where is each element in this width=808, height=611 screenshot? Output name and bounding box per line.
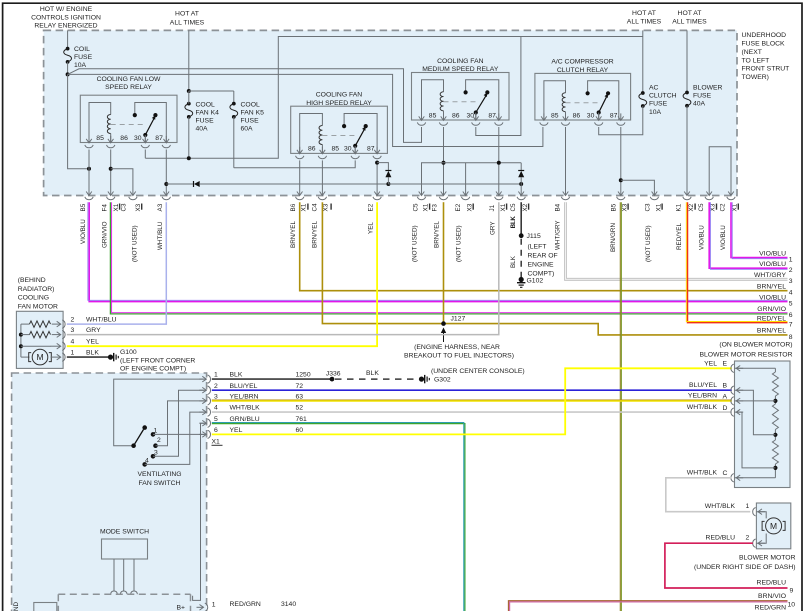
wire: low speed 85 to connector B5 xyxy=(88,150,90,189)
svg-text:RELAY ENERGIZED: RELAY ENERGIZED xyxy=(34,22,97,29)
svg-text:10A: 10A xyxy=(649,109,662,116)
svg-text:2: 2 xyxy=(214,383,218,390)
wire: medium 86 to connector X1/F3 xyxy=(443,127,445,189)
svg-text:85: 85 xyxy=(429,112,437,119)
svg-text:YEL/BRN: YEL/BRN xyxy=(230,394,259,401)
svg-text:(ON BLOWER MOTOR): (ON BLOWER MOTOR) xyxy=(719,342,792,349)
wire BRN/GRN from B5/X3 down off page xyxy=(619,202,621,611)
wire YEL row6 up to blower resistor pin E xyxy=(212,368,732,434)
svg-text:9: 9 xyxy=(790,588,794,595)
wire BLK (dashed) J115 to G102 xyxy=(520,239,522,277)
wire: low speed 87 to connector A3 xyxy=(165,150,167,189)
svg-text:J336: J336 xyxy=(326,370,341,377)
wire: BLK pin drop through diode xyxy=(520,163,522,171)
svg-text:RED/BLU: RED/BLU xyxy=(757,579,787,586)
svg-text:WHT/GRY: WHT/GRY xyxy=(754,272,786,279)
splice arrow at J127 xyxy=(443,330,445,343)
svg-text:4: 4 xyxy=(71,339,75,346)
pin B internal wire xyxy=(735,390,776,435)
svg-text:FAN K5: FAN K5 xyxy=(241,110,265,117)
wire: unused E2/X3 pin drop xyxy=(465,163,467,189)
cooling fan motor box xyxy=(16,311,63,368)
svg-text:BRN/VIO: BRN/VIO xyxy=(758,593,786,600)
svg-text:F4: F4 xyxy=(101,204,108,212)
wire: medium 87 to connector J1/X1 xyxy=(498,127,500,189)
wire VIO/BLU from C2/X1 to right edge (circuit 1) xyxy=(731,202,788,257)
wire: 87 bus with inline diode xyxy=(166,183,193,185)
svg-text:B5: B5 xyxy=(611,203,618,211)
svg-text:RED/GRN: RED/GRN xyxy=(230,601,261,608)
svg-text:GRN/BLU: GRN/BLU xyxy=(230,416,260,423)
svg-text:1: 1 xyxy=(71,350,75,357)
svg-text:30: 30 xyxy=(467,112,475,119)
svg-text:AC: AC xyxy=(649,85,659,92)
svg-text:BRN/YEL: BRN/YEL xyxy=(312,221,319,248)
svg-text:ENGINE: ENGINE xyxy=(528,262,555,269)
small box inside inner assembly xyxy=(34,603,57,611)
svg-text:(ENGINE HARNESS, NEAR: (ENGINE HARNESS, NEAR xyxy=(414,344,500,351)
fan switch blade xyxy=(134,430,144,446)
node J115 xyxy=(519,233,524,238)
wire: bus1 feed to medium speed relay coil (85) xyxy=(68,69,422,143)
diode (vertical, cathode up) xyxy=(385,170,391,172)
svg-text:(NEXT: (NEXT xyxy=(742,49,762,56)
svg-text:HOT AT: HOT AT xyxy=(175,11,199,18)
connector pin 1 of control assembly xyxy=(197,606,204,608)
svg-text:GRN/VIO: GRN/VIO xyxy=(757,306,786,313)
svg-text:YEL: YEL xyxy=(704,361,717,368)
wire YEL from E2 to cooling fan motor pin 4 xyxy=(67,202,377,346)
svg-text:WHT/BLK: WHT/BLK xyxy=(687,469,718,476)
svg-text:VIO/BLU: VIO/BLU xyxy=(759,250,786,257)
svg-text:C3: C3 xyxy=(120,203,127,212)
svg-text:TO LEFT: TO LEFT xyxy=(742,57,770,64)
svg-text:TOWER): TOWER) xyxy=(742,74,769,81)
svg-text:(LEFT: (LEFT xyxy=(528,244,547,251)
svg-text:2: 2 xyxy=(746,535,750,542)
relay mech link (dashed) xyxy=(566,102,599,104)
svg-text:ALL TIMES: ALL TIMES xyxy=(627,18,662,25)
svg-text:BLK: BLK xyxy=(366,370,379,377)
svg-text:1: 1 xyxy=(212,601,216,608)
svg-text:COOLING FAN LOW: COOLING FAN LOW xyxy=(97,76,161,83)
svg-text:WHT/BLU: WHT/BLU xyxy=(86,317,117,324)
svg-text:C: C xyxy=(723,470,728,477)
wire BLK row1 to J336 xyxy=(212,378,332,380)
wire: contact 4 riser to pin 4 xyxy=(145,412,204,464)
svg-text:K1: K1 xyxy=(676,203,683,211)
COOLING FAN LOW SPEED RELAY relay box xyxy=(80,95,177,142)
svg-text:E2: E2 xyxy=(367,203,374,211)
svg-text:30: 30 xyxy=(344,146,352,153)
pin D internal wire xyxy=(735,412,776,468)
fan motor pin cups xyxy=(62,320,65,328)
wire: low speed 86 down with dogleg to unused pin xyxy=(110,150,112,189)
COOLING FAN MEDIUM SPEED RELAY relay box xyxy=(412,73,510,121)
svg-text:BLK: BLK xyxy=(86,350,99,357)
svg-text:B+: B+ xyxy=(177,605,186,611)
svg-text:D: D xyxy=(723,405,728,412)
node: coil fuse output junction xyxy=(66,72,70,76)
svg-text:1: 1 xyxy=(789,257,793,264)
high speed relay pin connectors xyxy=(299,147,301,154)
svg-text:X2: X2 xyxy=(688,203,695,211)
svg-text:B4: B4 xyxy=(555,203,562,211)
svg-text:C2: C2 xyxy=(720,203,727,212)
svg-text:86: 86 xyxy=(308,146,316,153)
svg-text:ALL TIMES: ALL TIMES xyxy=(170,19,205,26)
svg-text:BRN/GRN: BRN/GRN xyxy=(610,223,617,252)
svg-text:FRONT STRUT: FRONT STRUT xyxy=(742,66,790,73)
svg-text:4: 4 xyxy=(789,290,793,297)
svg-text:FAN MOTOR: FAN MOTOR xyxy=(18,303,58,310)
svg-text:BLU/YEL: BLU/YEL xyxy=(689,382,717,389)
svg-text:2: 2 xyxy=(157,437,161,444)
svg-text:2: 2 xyxy=(789,267,793,274)
svg-text:UNDERHOOD: UNDERHOOD xyxy=(742,32,787,39)
wire GRY from J1/X1 to cooling fan motor pin 3 xyxy=(67,202,499,334)
svg-text:WHT/BLU: WHT/BLU xyxy=(157,221,164,250)
relay coil xyxy=(422,80,444,120)
ground G100 xyxy=(108,355,113,360)
wire: contact 3 riser to pin 2 xyxy=(153,390,204,456)
svg-text:BLOWER MOTOR RESISTOR: BLOWER MOTOR RESISTOR xyxy=(699,352,792,359)
svg-text:5: 5 xyxy=(789,301,793,308)
svg-text:1: 1 xyxy=(154,427,158,434)
fan motor wire (speed 3) xyxy=(21,345,51,347)
svg-text:COOLING FAN: COOLING FAN xyxy=(437,58,484,65)
svg-text:30: 30 xyxy=(134,135,142,142)
wire BLK from C5/X2 to J115 xyxy=(520,202,522,234)
svg-text:B6: B6 xyxy=(290,203,297,211)
svg-text:(LEFT FRONT CORNER: (LEFT FRONT CORNER xyxy=(120,357,195,364)
fan motor M xyxy=(21,356,30,358)
svg-text:60A: 60A xyxy=(241,126,254,133)
svg-text:ALL TIMES: ALL TIMES xyxy=(672,18,707,25)
relay mech link (dashed) xyxy=(322,135,355,137)
svg-text:(NOT USED): (NOT USED) xyxy=(412,225,419,262)
svg-text:7: 7 xyxy=(789,322,793,329)
underhood fuse block (dashed enclosure) xyxy=(44,30,737,195)
wire BLK dashed J336 to G302 xyxy=(335,378,416,380)
svg-text:3140: 3140 xyxy=(281,601,296,608)
svg-text:BLU/YEL: BLU/YEL xyxy=(230,383,258,390)
ground G302 xyxy=(419,377,424,382)
svg-text:87: 87 xyxy=(488,112,496,119)
svg-text:A3: A3 xyxy=(157,203,164,211)
svg-text:X3: X3 xyxy=(621,203,628,211)
svg-text:M: M xyxy=(36,352,43,362)
svg-text:761: 761 xyxy=(296,416,308,423)
svg-text:VIO/BLU: VIO/BLU xyxy=(698,225,705,250)
wire: low speed relay 30 / K4 bus up and over to A/C fuse line xyxy=(145,37,643,159)
svg-text:86: 86 xyxy=(120,135,128,142)
svg-text:85: 85 xyxy=(332,146,340,153)
wire: bus2 feed to A/C relay coil (85) xyxy=(68,74,543,146)
node: medium 86 junction xyxy=(442,161,446,165)
switch contact 4 xyxy=(142,462,147,467)
svg-text:10: 10 xyxy=(788,602,796,609)
svg-text:GND: GND xyxy=(13,602,20,611)
svg-text:X3: X3 xyxy=(322,203,329,211)
svg-text:(UNDER RIGHT SIDE OF DASH): (UNDER RIGHT SIDE OF DASH) xyxy=(694,564,795,571)
wire: high speed 87 dogleg to diode xyxy=(377,163,388,171)
wire: A/C fuse to A/C relay 30 xyxy=(599,106,643,135)
wire VIO/BLU from B5 to right edge (circuit 5) xyxy=(89,202,787,301)
svg-text:C4: C4 xyxy=(312,203,319,212)
mode switch box xyxy=(102,539,148,559)
wire: HOT AT ALL TIMES into blower fuse xyxy=(686,30,688,92)
relay coil xyxy=(300,114,323,154)
svg-text:HOT AT: HOT AT xyxy=(678,10,702,17)
wire BLK fan motor to G100 xyxy=(67,356,108,358)
svg-text:COOLING FAN: COOLING FAN xyxy=(316,92,363,99)
svg-text:WHT/BLK: WHT/BLK xyxy=(687,404,718,411)
svg-text:86: 86 xyxy=(452,112,460,119)
svg-text:(UNDER CENTER CONSOLE): (UNDER CENTER CONSOLE) xyxy=(431,368,525,375)
svg-text:FAN K4: FAN K4 xyxy=(196,110,220,117)
relay switch xyxy=(135,103,167,143)
inner control assembly (dashed box, cut off at bottom) xyxy=(58,593,190,595)
blower fuse 40A xyxy=(685,91,689,95)
svg-text:X1: X1 xyxy=(655,203,662,211)
wire: contact 2 riser to pin 3 xyxy=(156,401,205,446)
svg-text:A: A xyxy=(723,394,728,401)
svg-text:YEL/BRN: YEL/BRN xyxy=(688,393,717,400)
svg-text:BRN/YEL: BRN/YEL xyxy=(433,221,440,248)
node J127 xyxy=(441,321,446,326)
fan motor resistor (speed 1) xyxy=(21,323,30,325)
relay switch xyxy=(466,80,499,120)
svg-text:HOT AT: HOT AT xyxy=(632,10,656,17)
svg-text:VIO/BLU: VIO/BLU xyxy=(759,294,786,301)
switch contact 3 xyxy=(151,454,156,459)
wire: high speed 85 to connector X1/C4 xyxy=(321,160,323,188)
svg-text:FUSE: FUSE xyxy=(74,54,93,61)
relay switch xyxy=(344,114,377,154)
svg-text:85: 85 xyxy=(551,112,559,119)
svg-text:1: 1 xyxy=(214,372,218,379)
wire BLU/YEL row2 to blower resistor pin B xyxy=(212,389,732,391)
svg-text:BLK: BLK xyxy=(230,372,243,379)
svg-text:COIL: COIL xyxy=(74,46,90,53)
svg-text:CLUTCH RELAY: CLUTCH RELAY xyxy=(557,67,609,74)
svg-text:C5: C5 xyxy=(510,203,517,212)
node: K4 fuse output on bus xyxy=(187,156,191,160)
svg-text:G100: G100 xyxy=(120,349,137,356)
svg-text:X1: X1 xyxy=(301,203,308,211)
svg-text:X2: X2 xyxy=(522,203,529,211)
svg-text:87: 87 xyxy=(155,135,163,142)
svg-text:YEL: YEL xyxy=(86,339,99,346)
svg-text:E: E xyxy=(723,361,728,368)
svg-text:HOT W/ ENGINE: HOT W/ ENGINE xyxy=(40,6,93,13)
svg-text:X1: X1 xyxy=(500,203,507,211)
svg-text:(BEHIND: (BEHIND xyxy=(18,277,46,284)
A/C COMPRESSOR CLUTCH RELAY relay box xyxy=(535,73,631,120)
wire: coil fuse down to low speed relay 85 xyxy=(68,74,89,168)
svg-text:RED/BLU: RED/BLU xyxy=(706,535,736,542)
node: end of 87 bus at BLK pin xyxy=(519,182,523,186)
svg-text:B: B xyxy=(723,383,728,390)
svg-text:5: 5 xyxy=(214,416,218,423)
wire: A/C 87 to connector B5/X3 xyxy=(620,127,622,189)
pin A internal wire xyxy=(735,400,776,402)
svg-text:WHT/BLK: WHT/BLK xyxy=(230,405,261,412)
svg-text:C5: C5 xyxy=(698,203,705,212)
blower motor M xyxy=(766,518,782,534)
svg-text:X1: X1 xyxy=(212,439,221,446)
relay coil xyxy=(544,81,566,120)
svg-text:MEDIUM SPEED RELAY: MEDIUM SPEED RELAY xyxy=(422,66,499,73)
svg-text:COOL: COOL xyxy=(241,102,260,109)
svg-text:WHT/BLK: WHT/BLK xyxy=(705,503,736,510)
wire: medium speed relay 30 riser to feed bus xyxy=(476,37,521,136)
svg-text:BREAKOUT TO FUEL INJECTORS): BREAKOUT TO FUEL INJECTORS) xyxy=(404,353,514,360)
svg-text:COOLING: COOLING xyxy=(18,295,49,302)
svg-text:87: 87 xyxy=(610,112,618,119)
svg-text:GRY: GRY xyxy=(86,327,101,334)
wire: HOT AT ALL TIMES into A/C clutch fuse xyxy=(642,30,644,93)
svg-text:RED/GRN: RED/GRN xyxy=(755,604,786,611)
svg-text:YEL: YEL xyxy=(230,427,243,434)
svg-text:HIGH SPEED RELAY: HIGH SPEED RELAY xyxy=(306,100,372,107)
blower motor pin connectors xyxy=(758,511,765,513)
node: diode branch junction xyxy=(386,182,390,186)
svg-text:(NOT USED): (NOT USED) xyxy=(645,225,652,262)
wire: low speed 30 down to feed bus xyxy=(144,150,146,159)
svg-text:C5: C5 xyxy=(413,203,420,212)
COOLING FAN HIGH SPEED RELAY relay box xyxy=(291,106,388,153)
svg-text:63: 63 xyxy=(296,394,304,401)
fan motor internal bus xyxy=(20,324,22,357)
svg-text:VIO/BLU: VIO/BLU xyxy=(759,261,786,268)
svg-text:FUSE: FUSE xyxy=(693,93,712,100)
svg-text:A/C COMPRESSOR: A/C COMPRESSOR xyxy=(551,59,613,66)
svg-text:C3: C3 xyxy=(644,203,651,212)
wire GRN/BLU row5 down off page xyxy=(212,424,465,611)
svg-text:RED/YEL: RED/YEL xyxy=(676,223,683,250)
svg-text:BRN/YEL: BRN/YEL xyxy=(757,328,786,335)
node: K4/K5 fuse feed junction xyxy=(187,89,191,93)
svg-text:72: 72 xyxy=(296,383,304,390)
svg-text:85: 85 xyxy=(96,135,104,142)
ventilating fan switch assembly (dashed enclosure) xyxy=(12,373,207,611)
svg-text:GRN/VIO: GRN/VIO xyxy=(101,221,108,248)
svg-text:G102: G102 xyxy=(527,278,544,285)
svg-text:BLOWER MOTOR: BLOWER MOTOR xyxy=(739,554,796,561)
node: high speed 87 junction xyxy=(375,161,379,165)
wire: VIO/BLU bracket jumper inside fuse block xyxy=(709,147,731,189)
wire: blower fuse down to connector K1 xyxy=(686,106,688,189)
wire BRN/YEL from X1/C4 to J127 and right edge (circuit 8) xyxy=(322,202,787,335)
wire BRN/YEL from X1/F3 down to J127 xyxy=(443,202,445,323)
svg-text:BLK: BLK xyxy=(510,255,517,268)
svg-text:BRN/YEL: BRN/YEL xyxy=(757,283,786,290)
svg-text:SPEED RELAY: SPEED RELAY xyxy=(105,84,152,91)
svg-text:8: 8 xyxy=(789,334,793,341)
wire: HOT AT ALL TIMES feed to cool fan fuses xyxy=(188,30,190,91)
wire: pin 5 riser down to B+ feed xyxy=(193,423,204,600)
svg-text:87: 87 xyxy=(367,146,375,153)
svg-text:M: M xyxy=(770,521,777,531)
svg-text:52: 52 xyxy=(296,405,304,412)
wire RED/YEL from K1/X2 to right edge (circuit 7) xyxy=(688,202,788,322)
svg-text:1250: 1250 xyxy=(296,372,311,379)
wire VIO/BLU from C5/X3 to right edge (circuit 2) xyxy=(709,202,787,268)
relay switch xyxy=(588,81,619,120)
svg-text:3: 3 xyxy=(214,394,218,401)
svg-text:X3: X3 xyxy=(466,203,473,211)
blower motor resistor box xyxy=(735,361,791,488)
wire: ignition feed into coil fuse xyxy=(67,30,69,48)
relay coil xyxy=(89,103,111,143)
switch contact 1 xyxy=(151,432,156,437)
svg-text:YEL: YEL xyxy=(367,222,374,234)
svg-text:BLK: BLK xyxy=(510,216,517,229)
svg-text:COMPT): COMPT) xyxy=(528,270,555,277)
svg-text:40A: 40A xyxy=(196,126,209,133)
svg-text:X1: X1 xyxy=(423,203,430,211)
wire YEL/BRN row3 to blower resistor pin A xyxy=(212,400,732,402)
wire WHT/BLK pin C to blower motor pin 1 xyxy=(666,478,751,512)
svg-text:OF ENGINE COMPT): OF ENGINE COMPT) xyxy=(120,365,186,372)
svg-text:BRN/YEL: BRN/YEL xyxy=(290,221,297,248)
svg-text:FUSE BLOCK: FUSE BLOCK xyxy=(742,41,786,48)
svg-text:6: 6 xyxy=(214,427,218,434)
wire BRN/YEL from B6 to right edge (circuit 4) xyxy=(300,202,788,291)
relay mech link (dashed) xyxy=(444,101,476,103)
resistor chain xyxy=(735,367,776,369)
svg-text:4: 4 xyxy=(145,457,149,464)
svg-text:40A: 40A xyxy=(693,101,706,108)
svg-text:VIO/BLU: VIO/BLU xyxy=(80,219,87,244)
A/C relay pin connectors xyxy=(543,113,545,120)
svg-text:FAN SWITCH: FAN SWITCH xyxy=(139,480,181,487)
wire WHT/BLK row4 to blower resistor pin D xyxy=(212,411,732,413)
svg-text:(NOT USED): (NOT USED) xyxy=(456,225,463,262)
wire GRN/VIO from F4 to right edge (circuit 6) xyxy=(110,202,787,314)
wire RED/BLU blower motor pin 2 to right edge (circuit 9) xyxy=(665,543,788,588)
svg-text:E2: E2 xyxy=(455,203,462,211)
fan motor resistor (speed 2) xyxy=(21,334,30,336)
wire: high speed 86 to connector B6 xyxy=(299,160,301,188)
A/C clutch fuse 10A xyxy=(641,91,645,95)
diode (vertical, cathode up) xyxy=(518,170,524,172)
switch contact 2 xyxy=(153,443,158,448)
wire: A/C 87 dogleg to unused C3/X1 pin xyxy=(621,180,655,188)
svg-text:86: 86 xyxy=(573,112,581,119)
svg-text:VIO/BLU: VIO/BLU xyxy=(720,225,727,250)
connector X1 pins xyxy=(199,378,206,380)
svg-text:RADIATOR): RADIATOR) xyxy=(18,286,55,293)
wire WHT/GRY from B4 to right edge (circuit 3) xyxy=(566,202,788,279)
ground G102 xyxy=(519,277,524,282)
cool fan K4 fuse 40A xyxy=(187,102,191,106)
wire: contact 1 to pin 6 xyxy=(153,433,204,435)
node: switch common xyxy=(131,443,136,448)
svg-text:6: 6 xyxy=(789,312,793,319)
svg-text:VENTILATING: VENTILATING xyxy=(137,471,181,478)
fuse block output connector row xyxy=(88,189,90,196)
coil fuse 10A xyxy=(66,47,70,51)
low speed relay pin connectors xyxy=(88,136,90,143)
svg-text:3: 3 xyxy=(71,327,75,334)
svg-text:30: 30 xyxy=(587,112,595,119)
svg-text:1: 1 xyxy=(746,503,750,510)
svg-text:F3: F3 xyxy=(432,204,439,212)
svg-text:MODE SWITCH: MODE SWITCH xyxy=(100,529,149,536)
